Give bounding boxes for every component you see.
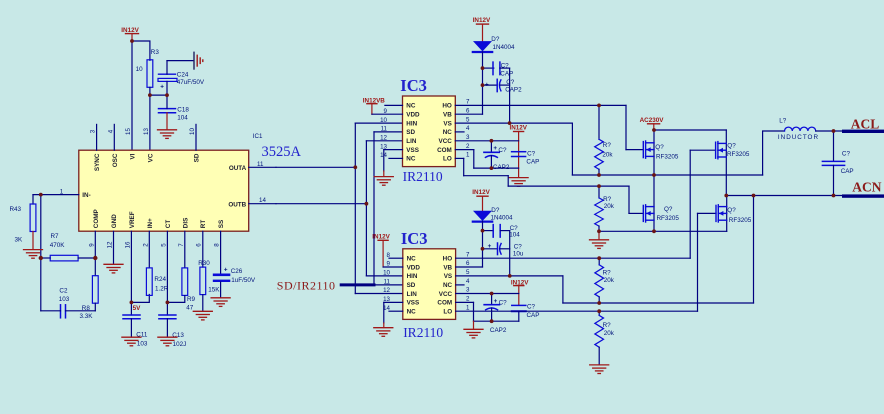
wire VC node to pin 13 [149, 95, 151, 150]
svg-text:C2: C2 [59, 287, 68, 294]
power AC230V [640, 117, 665, 130]
svg-text:IC3: IC3 [400, 76, 427, 95]
svg-text:VS: VS [444, 273, 452, 280]
resistor R43 3K [10, 195, 36, 244]
svg-text:C?: C? [498, 147, 507, 154]
svg-text:3: 3 [466, 134, 470, 141]
svg-text:10: 10 [189, 128, 196, 135]
wire IN- node down [40, 195, 42, 311]
svg-text:+: + [160, 84, 164, 91]
svg-text:R?: R? [603, 196, 612, 203]
wire Q3 drain [725, 130, 727, 196]
transistor Q2 IRF3205 [643, 205, 679, 222]
svg-text:104: 104 [509, 232, 520, 239]
wire ground rail (bridge low side) [599, 230, 727, 232]
IC3 IR2110 lower body [401, 229, 456, 340]
resistor R 20k (gate Q1) [595, 105, 614, 175]
IC3 lower pin numbers [383, 251, 470, 312]
svg-text:C13: C13 [172, 332, 184, 339]
svg-text:R9: R9 [187, 296, 196, 303]
capacitor C26 1uF/50V [213, 267, 256, 298]
svg-text:102J: 102J [173, 341, 187, 348]
capacitor C vcc2 CAP [512, 303, 540, 321]
IC3 upper NC stubs [385, 105, 464, 158]
svg-text:C?: C? [842, 151, 851, 158]
svg-text:NC: NC [443, 129, 453, 136]
wire LO1 to Q2 gate [455, 158, 643, 213]
wire VS2 to bridge midpoint B [456, 196, 754, 304]
svg-text:12: 12 [383, 287, 390, 294]
wire VCC2 row [456, 293, 519, 295]
wire HO2 to Q3 gate [456, 150, 716, 258]
svg-text:OUTB: OUTB [228, 201, 246, 208]
svg-text:10: 10 [136, 66, 144, 73]
svg-text:HO: HO [443, 256, 453, 263]
svg-text:6: 6 [195, 243, 202, 247]
svg-text:1: 1 [466, 304, 470, 311]
wire Q4 drain [726, 196, 728, 232]
svg-text:10: 10 [383, 270, 390, 277]
capacitor C bootstrap lower 10u (polarized) [483, 243, 524, 258]
ground under R43 [24, 232, 43, 259]
svg-text:IR2110: IR2110 [403, 169, 443, 184]
wire CT pin down [166, 231, 168, 315]
diode D1 1N4004 [473, 36, 515, 52]
resistor R3 [136, 49, 160, 88]
capacitor C vcc1 polarized [484, 141, 507, 168]
capacitor C bootstrap lower 104 [483, 225, 521, 239]
svg-text:OSC: OSC [112, 153, 119, 167]
capacitor C11 103 [123, 315, 148, 347]
svg-text:R?: R? [603, 142, 612, 149]
svg-text:+: + [485, 81, 489, 88]
svg-text:20k: 20k [602, 152, 613, 159]
svg-text:5: 5 [466, 269, 470, 276]
svg-text:R24: R24 [154, 276, 166, 283]
svg-text:IN12V: IN12V [372, 233, 390, 240]
svg-text:20k: 20k [604, 203, 615, 210]
wire SD net link [374, 132, 403, 285]
svg-text:VS: VS [443, 120, 451, 127]
svg-text:10: 10 [380, 117, 387, 124]
svg-text:47: 47 [186, 304, 194, 311]
svg-text:9: 9 [88, 243, 95, 247]
svg-text:+: + [494, 298, 498, 305]
resistor R 20k (gate Q2) [595, 186, 615, 231]
svg-text:COMP: COMP [93, 209, 100, 228]
svg-text:2: 2 [466, 143, 470, 150]
power IN12VB [363, 97, 386, 114]
svg-text:COM: COM [437, 147, 452, 154]
svg-text:D?: D? [491, 36, 500, 43]
svg-text:1.2R: 1.2R [155, 285, 169, 292]
svg-text:Q?: Q? [664, 206, 673, 213]
wire IN+ pin down [148, 231, 150, 268]
svg-text:VCC: VCC [439, 291, 453, 298]
svg-text:CAP: CAP [527, 312, 540, 319]
capacitor C24 47uF/50V [158, 61, 205, 96]
capacitor C bootstrap upper CAP [483, 62, 514, 77]
svg-text:R7: R7 [51, 233, 60, 240]
svg-text:Q?: Q? [727, 207, 736, 214]
wire bootstrap caps to VS [509, 68, 511, 123]
svg-text:HO: HO [442, 103, 452, 110]
svg-text:CAP2: CAP2 [493, 164, 510, 171]
svg-text:CAP: CAP [841, 168, 854, 175]
ground under bridge rail [590, 231, 609, 248]
IC U1 SG3525A body [79, 133, 302, 231]
svg-text:1: 1 [466, 152, 470, 159]
wire OUTA net [276, 123, 403, 293]
svg-text:NC: NC [407, 309, 417, 316]
wire node to C24/C18 column [150, 94, 167, 96]
wire VDD pin [372, 113, 403, 115]
ground under IC3 lower VSS [374, 323, 393, 336]
svg-text:CAP: CAP [500, 71, 513, 78]
svg-text:R3: R3 [151, 49, 160, 56]
svg-text:+: + [493, 145, 497, 152]
wire VSS to ground [384, 149, 403, 151]
svg-text:INDUCTOR: INDUCTOR [778, 134, 819, 141]
svg-text:3K: 3K [15, 237, 24, 244]
wire Q1 drain [653, 130, 655, 175]
svg-text:DIS: DIS [182, 218, 189, 229]
svg-text:11: 11 [381, 126, 388, 133]
wire bootstrap caps to VS2 [509, 231, 511, 276]
svg-text:13: 13 [143, 128, 150, 135]
ground under vcc2 [464, 321, 483, 338]
svg-text:VB: VB [443, 112, 452, 119]
IC3 IR2110 upper body [400, 76, 455, 184]
svg-text:2: 2 [466, 296, 470, 303]
transistor Q3 IRF3205 [716, 142, 750, 159]
svg-text:RF3205: RF3205 [729, 217, 752, 224]
svg-text:SD: SD [406, 129, 415, 136]
svg-text:CT: CT [165, 220, 172, 229]
resistor R24 1.2R [146, 268, 168, 296]
wire C24 top to earth [167, 60, 194, 62]
svg-text:LIN: LIN [406, 138, 417, 145]
ground (rotated earth, right-pointing) [194, 52, 203, 69]
power IN12V (upper VCC) [510, 125, 528, 178]
wire IN12V to VI pin [131, 41, 133, 150]
svg-text:VSS: VSS [406, 147, 419, 154]
svg-text:C24: C24 [177, 71, 189, 78]
wire diode to VB [455, 52, 482, 114]
svg-text:NC: NC [406, 103, 416, 110]
svg-text:SD: SD [194, 153, 201, 162]
resistor R 20k (gate Q4) [595, 311, 615, 365]
wire diode2 to VB2 [456, 221, 483, 267]
resistor R8 3.3K [80, 276, 99, 320]
wire IN12V to R3 [132, 41, 150, 60]
svg-text:2: 2 [142, 243, 149, 247]
capacitor C18 104 [159, 95, 190, 121]
svg-text:10u: 10u [513, 250, 524, 257]
resistor R9 47 [182, 268, 196, 312]
svg-text:VCC: VCC [439, 138, 453, 145]
svg-text:103: 103 [59, 296, 70, 303]
svg-text:C?: C? [527, 151, 536, 158]
svg-text:NC: NC [407, 256, 417, 263]
svg-text:IN-: IN- [82, 192, 90, 199]
power IN12V (lower VDD) [372, 233, 390, 267]
svg-text:CAP2: CAP2 [505, 86, 522, 93]
power IN12V (lower diode) [472, 189, 490, 211]
svg-text:ACL: ACL [851, 117, 880, 132]
svg-text:HIN: HIN [406, 120, 417, 127]
svg-text:104: 104 [177, 115, 188, 122]
svg-text:+: + [488, 243, 492, 250]
svg-text:L?: L? [779, 117, 787, 124]
svg-text:NC: NC [443, 282, 453, 289]
svg-text:12: 12 [380, 135, 387, 142]
wire R9 to CT node [167, 296, 184, 303]
svg-text:VC: VC [147, 153, 154, 162]
svg-text:5: 5 [466, 116, 470, 123]
svg-text:VDD: VDD [407, 264, 421, 271]
svg-text:HIN: HIN [407, 273, 418, 280]
svg-text:ACN: ACN [852, 179, 881, 194]
port ACL [842, 117, 884, 133]
svg-text:NC: NC [406, 156, 416, 163]
svg-text:SD: SD [407, 282, 416, 289]
svg-text:6: 6 [466, 260, 470, 267]
transistor Q1 IRF3205 [643, 141, 679, 161]
IC1 pin names [82, 153, 246, 228]
svg-text:VSS: VSS [407, 300, 420, 307]
power IN12V (upper diode) [473, 17, 491, 41]
wire AC230V top rail [654, 129, 726, 131]
IC3 upper pin names [406, 103, 452, 163]
power IN12V (top-left supply) [121, 27, 139, 41]
svg-text:CAP2: CAP2 [490, 327, 507, 334]
svg-text:IN12V: IN12V [510, 125, 528, 132]
svg-text:OUTA: OUTA [229, 165, 247, 172]
ground under vcc1 [509, 178, 528, 187]
wire VS1 to bridge midpoint A [455, 123, 762, 175]
wire VDD2 pin [383, 266, 403, 268]
svg-text:LIN: LIN [407, 291, 418, 298]
wire VCC1 row [455, 140, 518, 142]
ground under C11 [122, 337, 141, 346]
svg-text:RF3205: RF3205 [656, 154, 679, 161]
IC1 pin 10 SD stub [195, 124, 197, 150]
svg-text:RF3205: RF3205 [727, 151, 750, 158]
svg-text:R?: R? [603, 269, 612, 276]
svg-text:IC3: IC3 [401, 229, 428, 248]
power IN12V (lower VCC) [511, 279, 529, 305]
IC1 OUTA pin stub [249, 166, 276, 168]
svg-text:3525A: 3525A [262, 144, 302, 160]
wire midpoint B row to ACN [726, 195, 843, 197]
svg-text:6: 6 [466, 107, 470, 114]
svg-text:Q?: Q? [655, 144, 664, 151]
svg-text:SD/IR2110: SD/IR2110 [277, 278, 336, 292]
resistor R 20k (gate Q3) [595, 258, 615, 303]
svg-text:C18: C18 [177, 107, 189, 114]
diode D2 1N4004 [473, 207, 513, 222]
IC3 lower NC stubs [389, 258, 464, 311]
svg-text:103: 103 [137, 340, 148, 347]
wire GND pin down [113, 231, 115, 264]
wire VREF pin down [130, 231, 132, 315]
ground under IC3 upper VSS [374, 171, 393, 185]
wire midpoint A up to inductor [763, 131, 785, 175]
svg-text:1uF/50V: 1uF/50V [231, 277, 256, 284]
svg-text:12: 12 [107, 241, 114, 248]
ground under C13 [158, 337, 177, 346]
wire R3 to VC node [149, 87, 151, 95]
svg-text:LO: LO [443, 309, 452, 316]
IC1 OUTB pin stub [249, 203, 276, 205]
svg-text:IN12V: IN12V [121, 27, 139, 34]
capacitor C2 103 [41, 287, 96, 318]
resistor R30 15K [198, 260, 220, 311]
svg-text:20k: 20k [604, 330, 615, 337]
svg-text:5: 5 [160, 243, 167, 247]
svg-text:11: 11 [384, 279, 391, 286]
svg-text:1N4004: 1N4004 [491, 215, 514, 222]
svg-text:R?: R? [603, 322, 612, 329]
svg-text:VB: VB [443, 264, 452, 271]
IC1 pin 4 stub [113, 124, 115, 150]
ground under R30 [193, 311, 212, 320]
svg-text:Q?: Q? [727, 142, 736, 149]
resistor R7 470K [41, 233, 96, 261]
capacitor C vcc2 polarized [484, 294, 507, 322]
svg-text:7: 7 [466, 251, 470, 258]
svg-text:16: 16 [124, 241, 131, 248]
svg-text:15K: 15K [208, 287, 220, 294]
svg-text:C?: C? [527, 303, 536, 310]
svg-text:SS: SS [218, 220, 225, 228]
wire OUTB net [276, 141, 403, 276]
wire inductor to ACL [816, 130, 843, 132]
wire COM2 to cap rail [456, 302, 519, 321]
wire Q2 drain [653, 175, 655, 231]
svg-text:C?: C? [506, 79, 515, 86]
ground under C18 [158, 113, 177, 139]
svg-text:IR2110: IR2110 [403, 325, 443, 340]
port ACN [842, 179, 884, 197]
svg-text:+: + [224, 267, 228, 274]
wire VREF node to R24 [131, 295, 149, 303]
wire DIS pin down [184, 231, 186, 268]
svg-text:RT: RT [200, 220, 207, 229]
capacitor C output CAP [822, 131, 853, 196]
svg-text:470K: 470K [50, 242, 66, 249]
svg-text:20k: 20k [604, 277, 615, 284]
svg-text:RF3205: RF3205 [657, 215, 680, 222]
svg-text:4: 4 [466, 278, 470, 285]
ground under R 20k (Q4) [590, 365, 609, 374]
wire HO1 to Q1 gate [455, 105, 643, 149]
svg-text:C?: C? [499, 299, 508, 306]
svg-text:VDD: VDD [406, 112, 420, 119]
svg-text:5V: 5V [133, 305, 142, 312]
svg-text:15: 15 [125, 128, 132, 135]
wire COM1 to cap rail [455, 150, 518, 169]
svg-text:COM: COM [437, 300, 452, 307]
transistor Q4 IRF3205 [716, 205, 752, 224]
IC3 lower pin names [407, 256, 453, 316]
svg-text:1N4004: 1N4004 [493, 44, 516, 51]
svg-text:4: 4 [107, 129, 114, 133]
inductor L1 [778, 117, 819, 141]
svg-text:C?: C? [501, 62, 510, 69]
IC3 upper pin numbers [380, 99, 470, 160]
wire pin1 IN- row [33, 194, 79, 196]
svg-text:R43: R43 [10, 206, 22, 213]
ground GND pin [104, 264, 123, 273]
wire SD net (thick) [341, 283, 374, 286]
svg-text:CAP: CAP [526, 158, 539, 165]
svg-text:VI: VI [130, 153, 137, 159]
svg-text:IN12V: IN12V [472, 189, 490, 196]
wire RT pin down [202, 231, 204, 267]
svg-text:LO: LO [443, 156, 452, 163]
svg-text:R30: R30 [198, 260, 210, 267]
svg-text:IN+: IN+ [147, 218, 154, 228]
svg-text:GND: GND [111, 214, 118, 228]
capacitor C bootstrap upper CAP2 (polarized) [483, 79, 523, 93]
svg-text:4: 4 [466, 125, 470, 132]
IC1 pin 3 stub [96, 124, 98, 150]
svg-text:SYNC: SYNC [94, 153, 101, 171]
wire LO2 to Q4 gate [456, 213, 716, 311]
wire COMP pin down [94, 231, 96, 275]
svg-text:47uF/50V: 47uF/50V [177, 79, 205, 86]
IC1 pin numbers [60, 128, 267, 249]
svg-text:7: 7 [466, 99, 470, 106]
capacitor C13 102J [159, 315, 186, 348]
svg-text:D?: D? [491, 207, 500, 214]
svg-text:3: 3 [466, 287, 470, 294]
svg-text:3: 3 [90, 129, 97, 133]
svg-text:VREF: VREF [129, 211, 136, 228]
svg-text:IN12V: IN12V [473, 17, 491, 24]
svg-text:3.3K: 3.3K [80, 313, 94, 320]
wire SS pin down [220, 231, 222, 273]
wire VSS2 to ground [384, 302, 403, 323]
svg-text:C26: C26 [231, 268, 243, 275]
svg-text:7: 7 [178, 243, 185, 247]
svg-text:8: 8 [214, 243, 221, 247]
capacitor C vcc1 CAP [512, 151, 540, 166]
svg-text:IC1: IC1 [253, 133, 263, 140]
ground under C26 [211, 298, 230, 307]
